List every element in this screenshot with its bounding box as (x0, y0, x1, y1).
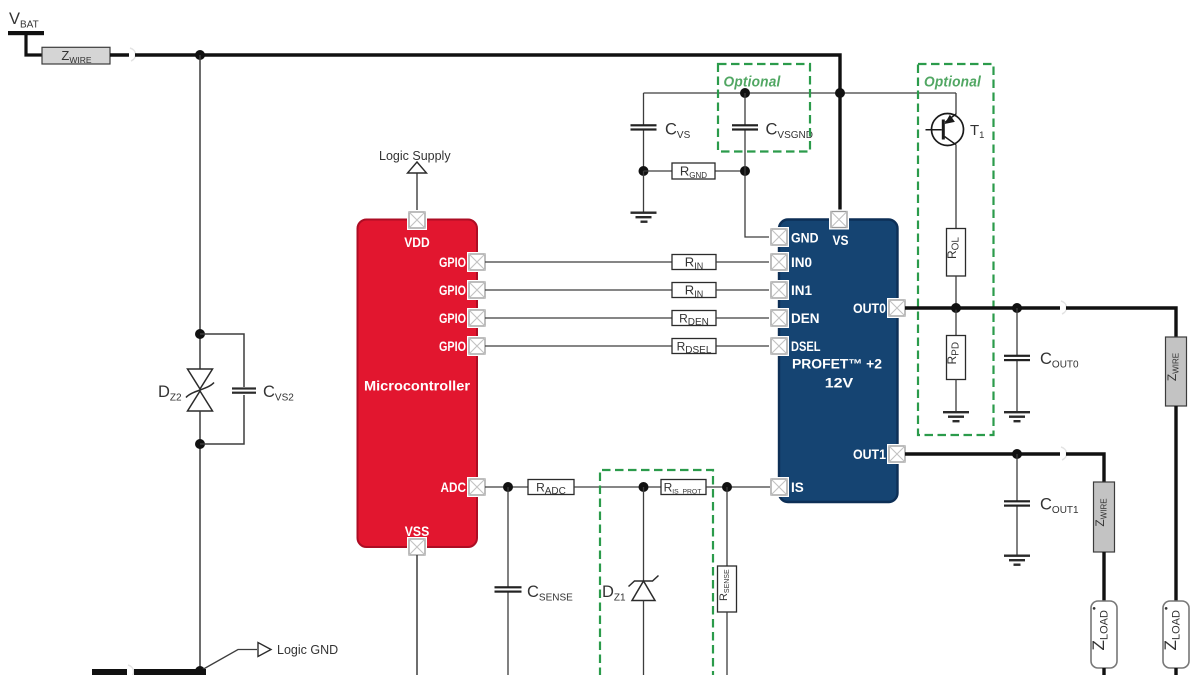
svg-text:GPIO: GPIO (439, 283, 466, 298)
svg-text:GPIO: GPIO (439, 311, 466, 326)
arrow Logic GND (258, 643, 271, 657)
junction node D_Z2 top (195, 329, 205, 339)
capacitor C_VSGND (732, 93, 758, 171)
ground R_PD (943, 380, 969, 423)
pin GPIO2 (467, 280, 487, 300)
ground bus bar bottom-left part2 (134, 669, 206, 675)
pin GND (769, 227, 789, 247)
junction node R_SENSE (722, 482, 732, 492)
resistor R_ADC (528, 480, 574, 498)
wire OUT0 net right (1066, 308, 1176, 337)
pin ADC (467, 477, 487, 497)
pin IN1 (769, 280, 789, 300)
svg-text:IS: IS (791, 480, 804, 495)
svg-text:IN1: IN1 (791, 283, 813, 298)
junction node top-left (195, 50, 205, 60)
junction node D_Z2 bottom (195, 439, 205, 449)
wire ADC to R_ADC (485, 486, 528, 488)
junction node D_Z1 (639, 482, 649, 492)
svg-text:Logic GND: Logic GND (277, 643, 338, 657)
load Z_LOAD (OUT1) (1089, 601, 1117, 668)
capacitor C_VS (631, 93, 657, 171)
svg-text:DSEL: DSEL (791, 339, 821, 354)
capacitor C_OUT1 (1004, 454, 1030, 555)
svg-text:GPIO: GPIO (439, 255, 466, 270)
load Z_LOAD (OUT0) (1161, 601, 1189, 668)
pin DSEL (769, 336, 789, 356)
wire R_ADC to R_IS_PROT (574, 486, 661, 488)
ground bus bar bottom-left (92, 669, 127, 675)
svg-text:Microcontroller: Microcontroller (364, 379, 471, 394)
ground C_OUT0 (1004, 411, 1030, 422)
junction node VS rail (835, 88, 845, 98)
junction node C_SENSE (503, 482, 513, 492)
resistor R_SENSE (718, 487, 737, 675)
pin VDD (407, 210, 427, 230)
microcontroller block (358, 220, 478, 548)
wire R_DEN to DEN (716, 317, 770, 319)
wire Z_WIRE to Z_LOAD (OUT1) (1102, 552, 1105, 601)
wire VS top distribution (644, 92, 957, 94)
svg-text:OUT1: OUT1 (853, 447, 886, 462)
TVS diode D_Z2 (186, 369, 214, 411)
wire R_IN1 to IN0 (716, 261, 770, 263)
pin GPIO3 (467, 308, 487, 328)
svg-text:VS: VS (833, 233, 849, 248)
wire OUT1 net (905, 452, 1060, 455)
svg-text:Optional: Optional (724, 74, 782, 91)
junction node R_GND right (740, 166, 750, 176)
svg-text:OUT0: OUT0 (853, 301, 886, 316)
svg-text:GND: GND (791, 231, 819, 246)
optional box C_VSGND (718, 64, 810, 152)
impedance Z_WIRE (OUT0) (1165, 337, 1187, 406)
wire logic supply to VDD (416, 173, 418, 212)
wire V_BAT to Z_WIRE (26, 33, 42, 55)
wire GPIO4 to R_DSEL (485, 345, 672, 347)
ground C_VS (631, 171, 657, 223)
wire break symbol OUT0 (1061, 301, 1067, 314)
wire GPIO3 to R_DEN (485, 317, 672, 319)
wire break symbol top-left (130, 48, 136, 61)
zener diode D_Z1 (629, 487, 659, 675)
junction node C_VSGND top (740, 88, 750, 98)
ground C_OUT1 (1004, 555, 1030, 566)
junction node logic gnd (195, 666, 205, 675)
optional box T1 (918, 64, 994, 435)
impedance Z_WIRE (OUT1) (1093, 482, 1115, 552)
wire left rail down segment 1 (199, 55, 201, 369)
wire VSS down (416, 555, 418, 675)
wire C_VS2 branch (200, 334, 244, 444)
wire OUT0 to R_PD (955, 308, 957, 336)
wire Z_LOAD bottom (OUT0) (1174, 668, 1177, 675)
junction node R_GND left (639, 166, 649, 176)
wire Z_WIRE to break (110, 53, 129, 56)
svg-text:DEN: DEN (791, 311, 820, 326)
svg-text:IN0: IN0 (791, 255, 812, 270)
svg-text:12V: 12V (825, 376, 854, 391)
pin GPIO1 (467, 252, 487, 272)
wire top to T1 emitter (955, 93, 957, 115)
svg-text:PROFET™ +2: PROFET™ +2 (792, 357, 882, 372)
wire Logic GND callout (200, 650, 257, 672)
resistor R_IN2 (672, 283, 716, 300)
pin IN0 (769, 252, 789, 272)
junction node C_OUT0 (1012, 303, 1022, 313)
wire R_IN2 to IN1 (716, 289, 770, 291)
svg-text:VSS: VSS (405, 524, 430, 539)
resistor R_IS_PROT (661, 480, 706, 496)
wire OUT1 net right (1066, 454, 1104, 482)
wire break symbol OUT1 (1061, 447, 1067, 460)
capacitor C_OUT0 (1004, 308, 1030, 412)
wire break symbol bottom bar (128, 665, 134, 675)
capacitor C_VS2 (232, 387, 256, 393)
pin VSS (407, 537, 427, 557)
resistor R_DSEL (672, 339, 716, 357)
wire GPIO1 to R_IN1 (485, 261, 672, 263)
wire R_OL to OUT0 (955, 276, 957, 308)
wire R_GND to GND pin (745, 171, 770, 237)
resistor R_GND (644, 163, 746, 180)
transistor T1 (926, 114, 964, 146)
junction node C_OUT1 (1012, 449, 1022, 459)
wire left rail down segment 2 (199, 411, 201, 670)
wire R_IS_PROT to IS (706, 486, 770, 488)
wire T1 collector to R_OL (955, 145, 957, 229)
arrow logic supply (408, 162, 427, 173)
svg-text:Logic Supply: Logic Supply (379, 149, 451, 163)
capacitor C_SENSE (495, 487, 522, 675)
resistor R_IN1 (672, 255, 716, 272)
svg-text:VDD: VDD (404, 235, 430, 250)
wire R_DSEL to DSEL (716, 345, 770, 347)
pin OUT0 (887, 298, 907, 318)
svg-text:ADC: ADC (441, 480, 467, 495)
resistor R_OL (945, 229, 966, 277)
resistor R_DEN (672, 311, 716, 329)
wire GPIO2 to R_IN2 (485, 289, 672, 291)
impedance Z_WIRE (battery feed) (42, 47, 110, 65)
pin DEN (769, 308, 789, 328)
V_BAT supply rail bar (8, 31, 44, 35)
resistor R_PD (945, 336, 966, 380)
PROFET block (779, 220, 898, 503)
svg-text:Optional: Optional (924, 74, 982, 91)
wire main VS rail to PROFET VS (135, 55, 840, 212)
pin IS (769, 477, 789, 497)
wire Z_WIRE to Z_LOAD (OUT0) (1174, 406, 1177, 601)
pin GPIO4 (467, 336, 487, 356)
wire Z_LOAD bottom (OUT1) (1102, 668, 1105, 675)
pin OUT1 (887, 444, 907, 464)
wire OUT0 net (905, 306, 1060, 309)
pin VS (829, 210, 849, 230)
optional box D_Z1/R_SENSE (600, 470, 713, 675)
svg-text:GPIO: GPIO (439, 339, 466, 354)
junction node OUT0/R_OL (951, 303, 961, 313)
